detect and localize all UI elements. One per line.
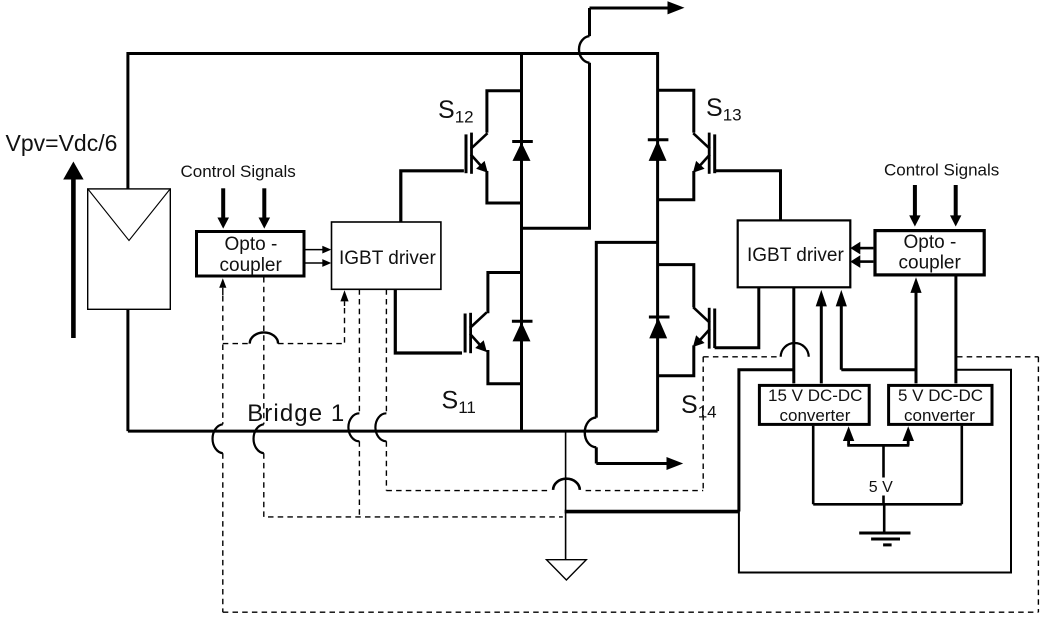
signal arrows opto-coupler to left driver <box>306 246 332 267</box>
wire hop: v5 over bottom DC bus <box>375 413 386 441</box>
svg-text:converter: converter <box>904 406 975 425</box>
dashed arrow head: v1 into left opto-coupler <box>219 278 226 295</box>
earth ground (bridge midpoint, open triangle) <box>547 560 587 580</box>
dashed rail H3 (v5 right to dashed enclosure) <box>386 490 703 492</box>
dashed arrow head: v3 into left IGBT driver <box>340 290 348 306</box>
label S12 <box>438 96 474 127</box>
wire: S14 gate lead to right IGBT driver bottom <box>715 287 759 348</box>
signal arrows right opto-coupler to right driver <box>850 242 873 268</box>
label S13 <box>706 94 742 125</box>
opto-coupler box (left) <box>197 232 305 277</box>
diode D13 (antiparallel, top right leg) <box>648 140 669 161</box>
label IGBT driver (right box text) <box>747 245 844 266</box>
wire: left leg midpoint riser to top AC output <box>523 8 590 228</box>
node: bottom AC output arrow <box>596 457 683 470</box>
label S11 <box>442 386 476 417</box>
wire: bottom DC bus <box>128 430 658 433</box>
label Vpv=Vdc/6 <box>6 130 118 156</box>
svg-text:coupler: coupler <box>899 253 962 274</box>
IGBT driver box (left) <box>332 222 441 289</box>
wire: S11 gate lead from left IGBT driver bottom <box>395 289 462 353</box>
svg-text:converter: converter <box>780 406 851 425</box>
dashed feedback line v2 (left opto-coupler down, to rail H2) <box>264 277 563 517</box>
transistor S13 (IGBT, top right leg, mirrored) <box>658 90 715 200</box>
svg-text:Bridge 1: Bridge 1 <box>247 400 345 427</box>
wire: 5V supply arrow into right driver <box>836 290 916 370</box>
svg-text:5 V: 5 V <box>869 479 893 496</box>
wire: S13 gate lead to right IGBT driver top <box>715 171 781 221</box>
label 15 V DC-DC converter <box>768 386 862 425</box>
Vpv arrow (voltage direction) <box>63 162 83 339</box>
dashed enclosure top edge (right part) <box>957 356 1038 358</box>
transistor S12 (IGBT, top left leg) <box>466 91 522 203</box>
dashed feedback line v5 (left driver to rail H3) <box>385 289 387 490</box>
control signal arrows into left opto-coupler <box>217 188 270 228</box>
control signal arrows into right opto-coupler <box>909 185 961 227</box>
wire: top DC bus <box>128 52 658 55</box>
label 5 V DC-DC converter <box>898 386 983 425</box>
wire: PV negative lead (PV bottom to bottom bus) <box>126 309 129 431</box>
svg-text:coupler: coupler <box>220 255 283 276</box>
label 5 V <box>869 479 893 496</box>
svg-text:Opto -: Opto - <box>225 234 278 255</box>
dashed feedback line v1 (left opto-coupler to bottom dashed rail) <box>222 296 224 612</box>
wire hop: H1 over v2 <box>250 332 278 343</box>
wire: right driver common lead down to 15V converter <box>792 287 795 383</box>
wire: 5V supply arrow into right opto-coupler <box>910 277 921 383</box>
svg-text:Control Signals: Control Signals <box>181 162 296 181</box>
wire: PV positive lead (PV top to top bus) <box>126 52 129 189</box>
dashed rail H1 (v1 to left driver arrow v3) <box>223 343 345 345</box>
wire: stem to chassis ground <box>883 504 886 531</box>
power supply enclosure (outer solid rectangle, top edge interrupted) <box>739 370 1011 573</box>
5 V DC-DC converter box <box>889 385 992 424</box>
IGBT driver box (right) <box>738 220 851 287</box>
diode D12 (antiparallel, top left leg) <box>512 142 533 161</box>
label Control Signals (left) <box>181 162 296 181</box>
wire: 15V converter bottom pin <box>812 426 815 505</box>
wire: left bridge-leg bus (through D12 and D11) <box>520 52 523 431</box>
svg-text:IGBT driver: IGBT driver <box>339 248 436 269</box>
wire: right bridge-leg bus (through D13 and D14) <box>656 52 659 431</box>
wire hop: v2 over bottom DC bus <box>254 424 264 453</box>
dashed feedback line v4 (left driver to rail H2) <box>358 289 360 517</box>
wire: 15V supply arrow into right driver <box>816 290 827 384</box>
15 V DC-DC converter box <box>759 385 869 424</box>
chassis ground (below converters) <box>859 533 910 545</box>
wire: driver common to ground node (left along enclosure edge) <box>565 370 794 512</box>
wire hop: dashed enclosure top edge over driver common wire <box>781 343 809 357</box>
PV panel (Vpv source) <box>88 189 171 309</box>
wire hop: v1 over bottom DC bus <box>213 424 223 453</box>
wire hop: top output riser over top DC bus <box>579 36 590 63</box>
dashed enclosure left edge <box>702 357 704 491</box>
wire: S12 gate lead from left IGBT driver top <box>401 171 464 222</box>
wire: bridge midpoint ground lead <box>565 431 567 559</box>
wire: 5V input tee feeding both converters <box>843 426 914 504</box>
transistor S14 (IGBT, bottom right leg, mirrored) <box>658 265 715 376</box>
wire: 5V converter bottom pin <box>960 426 963 505</box>
svg-text:15 V DC-DC: 15 V DC-DC <box>768 386 862 405</box>
label Control Signals (right) <box>884 161 999 180</box>
label S14 <box>681 391 717 422</box>
dashed bottom rail <box>223 611 1039 613</box>
label Opto-coupler (left box text) <box>220 234 283 276</box>
node: top AC output arrow <box>590 1 685 14</box>
dashed feedback line v3 (arrow into left driver bottom) <box>344 308 346 345</box>
svg-text:Control Signals: Control Signals <box>884 161 999 180</box>
wire hop: dashed line H3 jumping over ground lead <box>553 479 580 490</box>
diode D11 (antiparallel, bottom left leg) <box>512 321 533 341</box>
dashed enclosure right edge <box>1037 357 1039 612</box>
wire hop: bottom output dropper over bottom DC bus <box>585 418 597 448</box>
wire hop: v4 over bottom DC bus <box>348 413 359 441</box>
opto-coupler box (right) <box>875 231 984 275</box>
wire: right leg midpoint dropper to bottom AC output <box>596 242 657 463</box>
transistor S11 (IGBT, bottom left leg) <box>465 273 521 384</box>
label Opto-coupler (right box text) <box>899 232 962 274</box>
svg-text:Vpv=Vdc/6: Vpv=Vdc/6 <box>6 130 118 156</box>
svg-text:IGBT driver: IGBT driver <box>747 245 844 266</box>
svg-text:5 V DC-DC: 5 V DC-DC <box>898 386 983 405</box>
wire: right opto-coupler return to 5V converter <box>954 276 957 383</box>
svg-text:Opto -: Opto - <box>904 232 957 253</box>
label Bridge 1 <box>247 400 345 427</box>
dashed enclosure top edge (left part with jump gap) <box>703 356 781 358</box>
wire: converter return rail <box>813 503 962 506</box>
diode D14 (antiparallel, bottom right leg) <box>649 317 670 338</box>
label IGBT driver (left box text) <box>339 248 436 269</box>
